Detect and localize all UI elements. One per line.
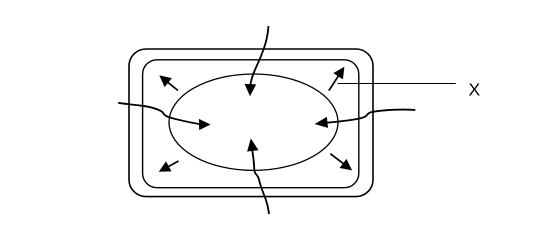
right squiggle arrowhead pointing left into ellipse <box>315 117 327 127</box>
cell wall outer rounded rectangle <box>129 49 373 197</box>
left squiggle line crossing wall <box>118 103 200 124</box>
top-right outward arrow shaft <box>329 76 339 91</box>
left squiggle arrowhead pointing right into ellipse <box>199 119 210 129</box>
top squiggle line crossing wall <box>250 26 268 85</box>
bottom squiggle line crossing wall <box>252 150 269 214</box>
bottom-right outward arrowhead <box>340 160 352 171</box>
right squiggle line crossing wall <box>327 110 415 123</box>
top-left outward arrow shaft <box>168 82 178 90</box>
bottom-right outward arrow shaft <box>330 154 343 164</box>
bottom-left outward arrow shaft <box>169 161 179 167</box>
svg-text:X: X <box>469 80 481 100</box>
bottom squiggle arrowhead pointing up into ellipse <box>248 139 259 151</box>
bottom-left outward arrowhead <box>159 162 171 172</box>
top-left outward arrowhead <box>160 76 172 87</box>
top-right outward arrowhead <box>334 67 344 79</box>
protoplast ellipse <box>169 74 338 170</box>
leader line to label X <box>338 83 456 85</box>
cell wall inner rounded rectangle <box>143 60 359 188</box>
top squiggle arrowhead pointing down into ellipse <box>245 84 256 95</box>
